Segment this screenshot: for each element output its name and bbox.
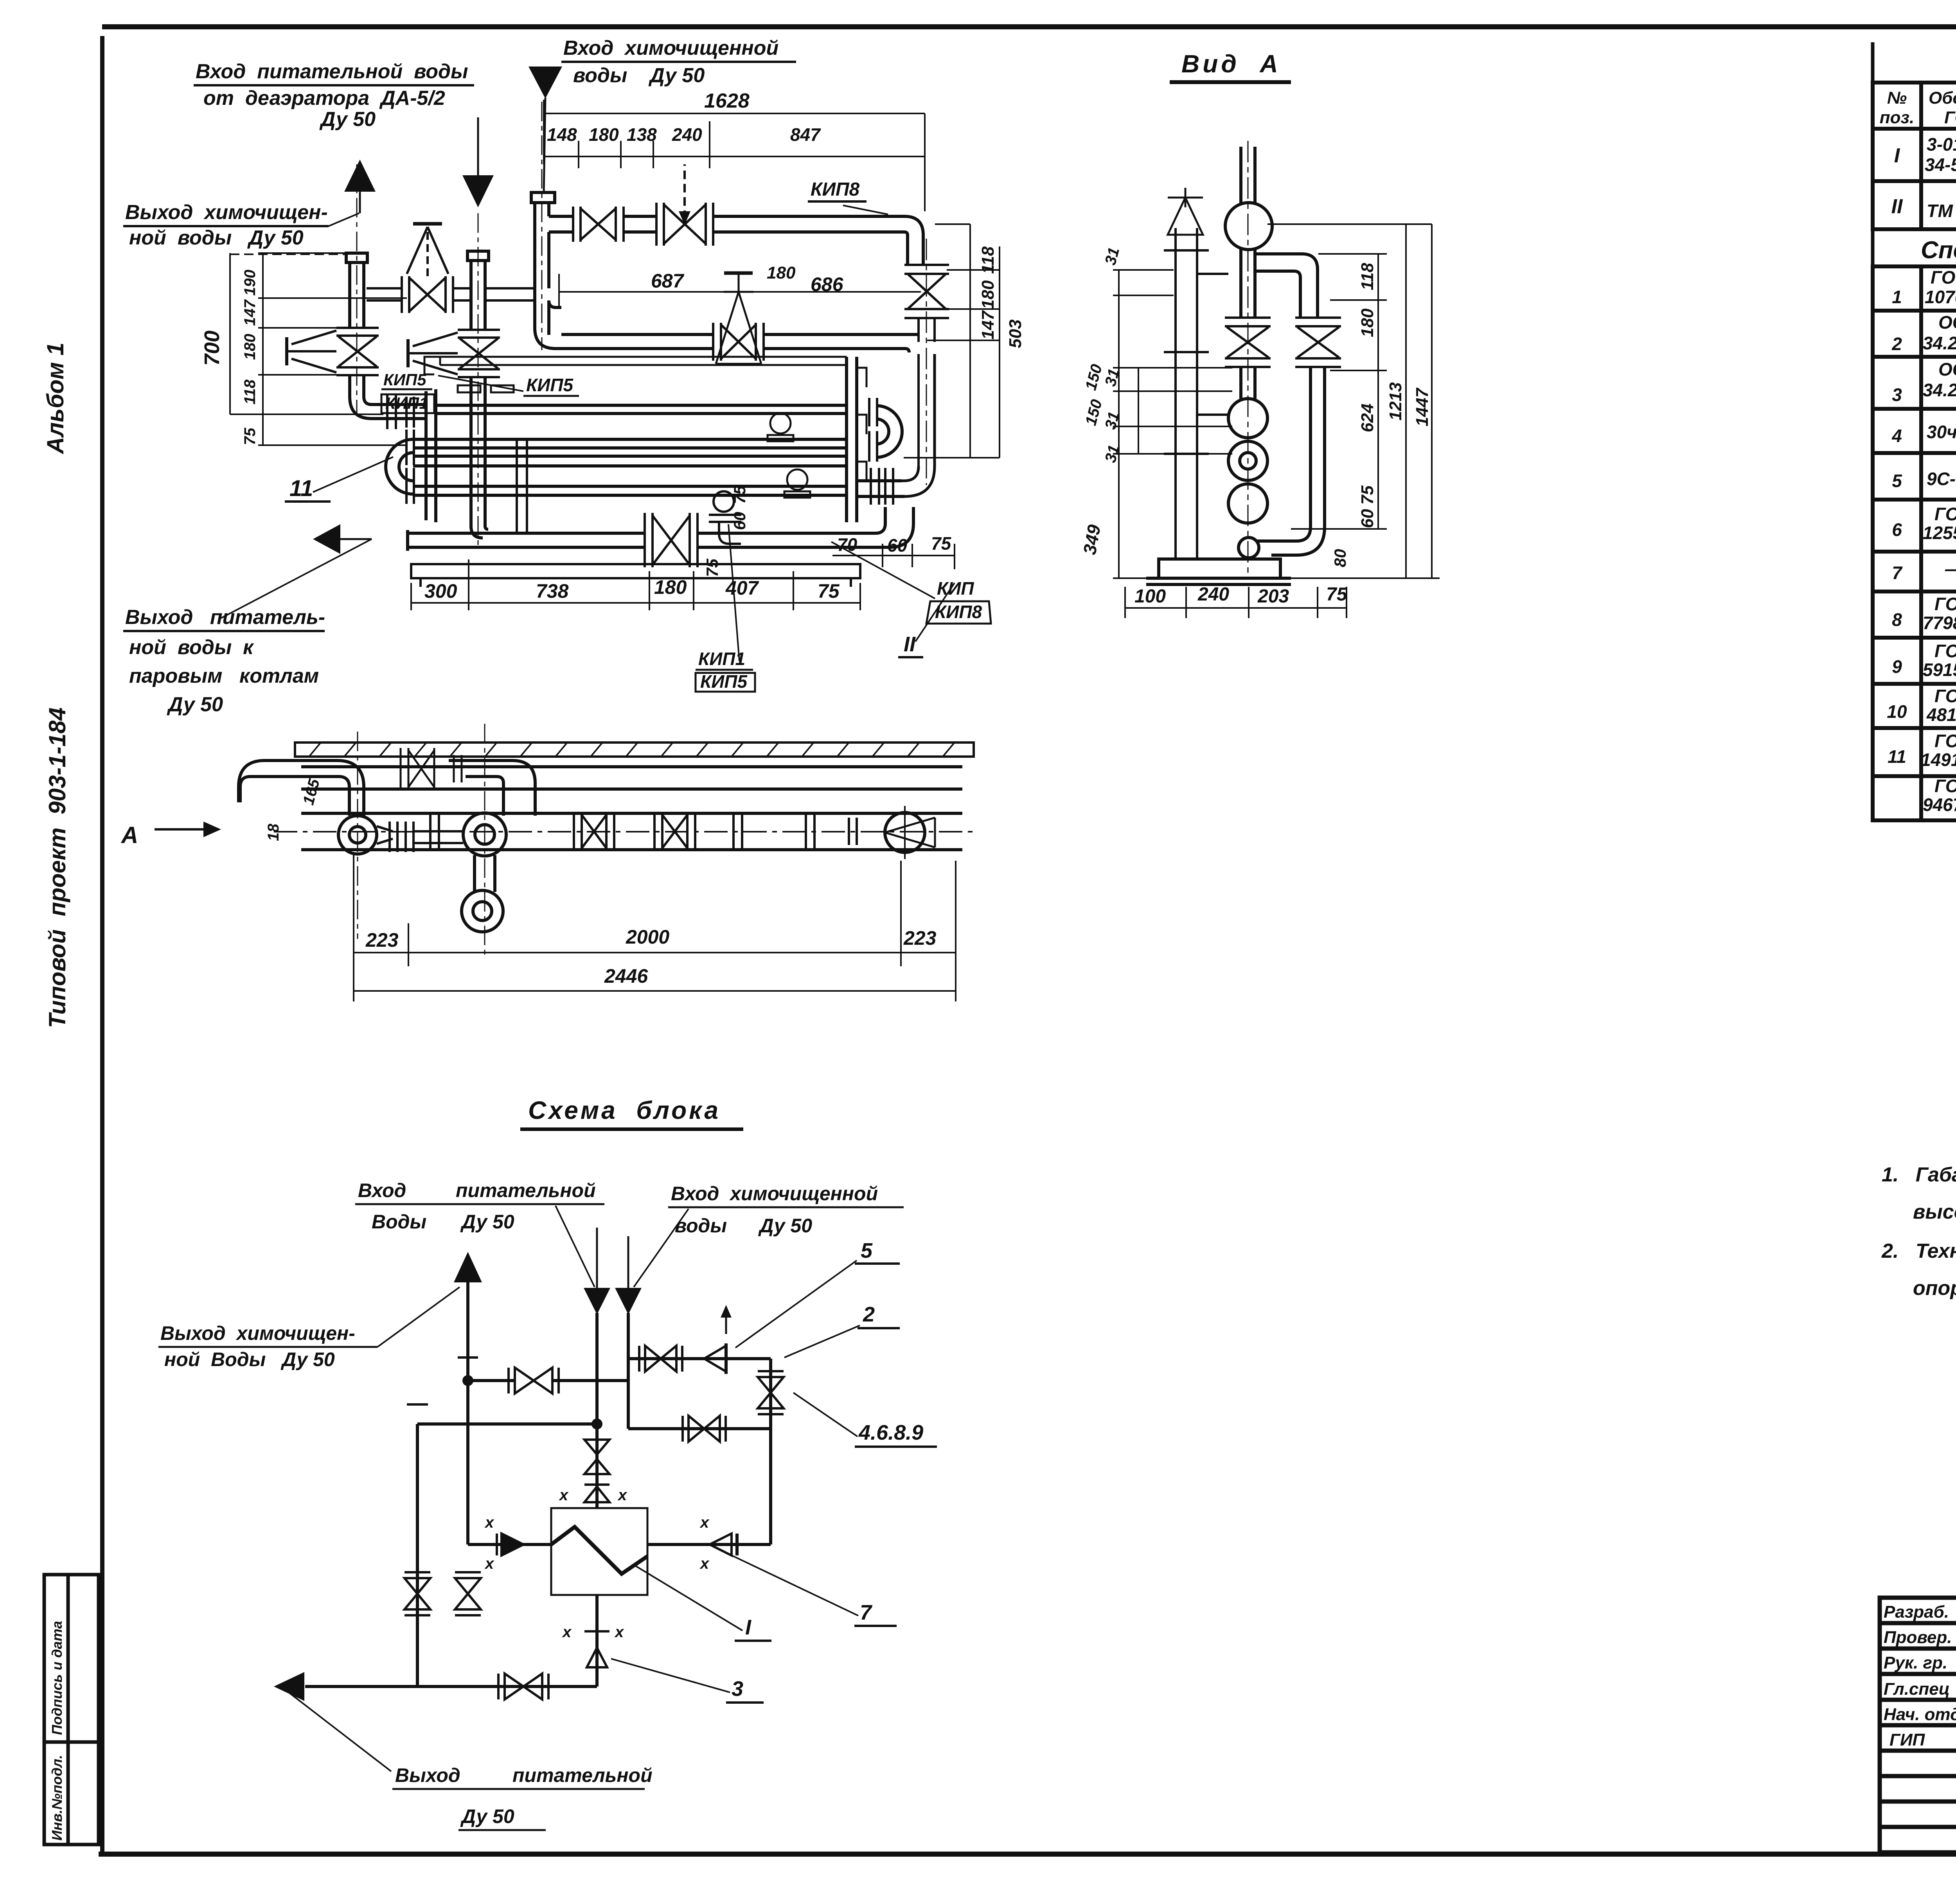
heat exchanger tube plates (424, 357, 867, 522)
svg-text:503: 503 (1006, 320, 1025, 348)
valves on H_d: gate + check (639, 1343, 726, 1374)
valve on right vertical (758, 1371, 784, 1414)
svg-text:высота - 1577 мм.: высота - 1577 мм. (1913, 1201, 1956, 1223)
label: feed outlet (286, 1690, 391, 1771)
pipe: lower horizontal run to right (561, 334, 919, 352)
stacked circles (1228, 399, 1267, 523)
small nozzles kip on tubes (458, 385, 810, 498)
svg-text:481-71: 481-71 (1926, 705, 1956, 725)
hx box (551, 1508, 647, 1595)
centerlines dash-dot verticals (357, 102, 542, 548)
centerlines vertical (358, 724, 485, 955)
svg-text:686: 686 (811, 273, 844, 295)
svg-text:7: 7 (1892, 563, 1903, 583)
bottom outlet pipe (408, 507, 913, 551)
left dim chain (1113, 270, 1232, 578)
valve on bottom pipe (645, 513, 698, 567)
svg-text:75: 75 (931, 533, 952, 554)
svg-text:1: 1 (1892, 287, 1902, 307)
svg-text:34-588-68: 34-588-68 (1925, 155, 1956, 175)
svg-text:1. Габариты блока: длин: 1. Габариты блока: длина - 2606, ширина … (1882, 1163, 1956, 1186)
main pipe lines (305, 1359, 771, 1686)
svg-text:КИП5: КИП5 (700, 671, 748, 692)
arrows down: feed and chem (584, 1288, 610, 1314)
svg-text:ной Воды Ду 50: ной Воды Ду 50 (164, 1348, 335, 1370)
svg-text:КИП8: КИП8 (935, 602, 982, 622)
table 1 row I (1894, 134, 1956, 177)
safety valve stack on feed line (584, 1440, 609, 1502)
svg-text:Ду 50: Ду 50 (167, 693, 223, 716)
svg-text:4.6.8.9: 4.6.8.9 (858, 1421, 923, 1444)
right dim chain (904, 224, 1000, 458)
bottom outlet (305, 1685, 597, 1688)
H_e return (628, 1427, 771, 1430)
valve 1 vertical (1225, 318, 1271, 367)
svg-text:180: 180 (654, 576, 687, 598)
svg-text:Выход питатель-: Выход питатель- (125, 606, 325, 629)
svg-text:x: x (699, 1555, 710, 1572)
svg-text:Выход химочищен-: Выход химочищен- (160, 1322, 355, 1344)
svg-text:ТМ —49: ТМ —49 (1927, 201, 1956, 221)
svg-text:100: 100 (1134, 586, 1166, 607)
svg-text:Альбом 1: Альбом 1 (42, 342, 68, 455)
svg-text:75: 75 (818, 580, 840, 602)
svg-text:4: 4 (1891, 426, 1902, 446)
svg-text:КИП5: КИП5 (526, 375, 573, 395)
svg-text:Выход: Выход (395, 1764, 460, 1786)
pipe V1 chem outlet vertical (346, 253, 426, 419)
svg-text:поз.: поз. (1880, 108, 1914, 127)
svg-text:180: 180 (1358, 308, 1377, 337)
svg-text:Вход питательной воды: Вход питательной воды (196, 60, 468, 83)
svg-text:18: 18 (265, 823, 282, 841)
svg-text:Вход химочищенной: Вход химочищенной (563, 37, 778, 59)
svg-text:опорную раму см. лист ТМ: опорную раму см. лист ТМ -49 (1913, 1277, 1956, 1300)
valve H_h (710, 1534, 737, 1555)
junction dots (462, 1375, 473, 1386)
left riser pipe with elbow (chem outlet seen from below) (239, 761, 535, 816)
exit arrow left (274, 1672, 304, 1701)
valve G3 on H2 with upper stem (402, 224, 453, 313)
svg-text:407: 407 (725, 577, 759, 599)
svg-text:Обознач.: Обознач. (1929, 88, 1956, 108)
svg-text:1447: 1447 (1413, 387, 1432, 426)
dim 1628 top (544, 100, 925, 211)
svg-text:А: А (120, 822, 138, 848)
svg-text:Вход химочищенной: Вход химочищенной (671, 1183, 878, 1205)
vertical centerline (1248, 141, 1249, 575)
left vertical 1 (416, 1424, 419, 1686)
below hx down to outlet (595, 1595, 599, 1686)
left U-bend kalach (386, 439, 413, 494)
svg-text:ГОСТ: ГОСТ (1934, 594, 1956, 614)
dims bottom row (411, 559, 860, 610)
svg-text:ГОСТ: ГОСТ (1931, 267, 1956, 288)
valve: right vertical gate (901, 239, 949, 496)
svg-text:180: 180 (978, 280, 998, 309)
svg-text:—"—: —"— (1945, 559, 1956, 579)
svg-text:x: x (562, 1624, 572, 1641)
svg-text:Ду 50: Ду 50 (319, 108, 376, 131)
svg-text:118: 118 (241, 379, 259, 405)
svg-text:118: 118 (978, 246, 998, 274)
dim row 148 180 138 240 847 (579, 121, 710, 168)
svg-text:КИП: КИП (937, 578, 974, 599)
svg-text:148: 148 (547, 124, 577, 145)
flange circle C1 (338, 816, 377, 854)
left stand column (1164, 228, 1228, 559)
svg-text:2: 2 (1891, 334, 1902, 354)
sheet frame left line (100, 36, 104, 1854)
H_b (417, 1422, 597, 1426)
svg-text:I: I (745, 1616, 751, 1639)
svg-text:I: I (1894, 144, 1900, 167)
svg-text:КИП8: КИП8 (811, 179, 860, 200)
flange ticks (430, 813, 857, 850)
svg-text:223: 223 (903, 927, 937, 949)
svg-text:60: 60 (887, 535, 908, 556)
svg-text:180: 180 (589, 124, 619, 145)
svg-text:180: 180 (241, 334, 259, 360)
svg-text:ГОСТ: ГОСТ (1934, 731, 1956, 751)
svg-text:КИП5: КИП5 (383, 370, 426, 389)
valve G2 on V2 (408, 330, 500, 377)
svg-text:5: 5 (861, 1239, 873, 1262)
svg-text:60: 60 (730, 512, 749, 530)
svg-text:624: 624 (1358, 404, 1377, 432)
hatched valve cluster on that pipe (401, 748, 462, 789)
H_g left to hx (468, 1543, 551, 1546)
spec table 2 grid (1873, 266, 1956, 820)
arrow down: feed inlet (477, 117, 479, 176)
top rail with hatch (295, 743, 974, 757)
svg-text:2000: 2000 (626, 926, 669, 948)
svg-text:847: 847 (790, 124, 821, 145)
svg-text:Разраб.: Разраб. (1884, 1602, 1949, 1622)
svg-text:1213: 1213 (1386, 382, 1405, 421)
svg-text:180: 180 (767, 263, 796, 282)
svg-text:118: 118 (1358, 262, 1377, 290)
svg-text:9С-3-3: 9С-3-3 (1927, 469, 1956, 489)
svg-text:5915-70*: 5915-70* (1923, 660, 1956, 680)
svg-text:воды Ду 50: воды Ду 50 (573, 64, 705, 87)
svg-text:147: 147 (241, 299, 259, 326)
svg-text:Инв.№подл.: Инв.№подл. (49, 1755, 65, 1841)
spec table title 2 (1873, 229, 1956, 266)
H_h right from hx (647, 1543, 771, 1546)
svg-text:питательной: питательной (456, 1179, 596, 1201)
svg-text:738: 738 (536, 580, 569, 602)
svg-text:1255-67*: 1255-67* (1923, 523, 1956, 543)
svg-text:ГОСТ: ГОСТ (1934, 686, 1956, 706)
svg-text:Схема блока: Схема блока (528, 1096, 721, 1124)
top pipe stub and circle (1225, 147, 1272, 318)
circle C2 with lower U-bend (462, 813, 506, 932)
svg-text:воды Ду 50: воды Ду 50 (675, 1215, 812, 1237)
dim 687 180 686 mid (559, 274, 921, 309)
bottom-left stamp boxes (44, 1575, 99, 1845)
valve on H_e (683, 1416, 726, 1442)
spec table 1 grid (1873, 83, 1956, 229)
svg-text:1628: 1628 (704, 90, 750, 112)
svg-text:9: 9 (1892, 656, 1902, 677)
svg-text:3: 3 (1892, 385, 1902, 405)
svg-text:11: 11 (1888, 746, 1906, 767)
svg-text:2: 2 (863, 1303, 875, 1326)
valves on left verticals (405, 1572, 481, 1615)
valve G1 on V1 (287, 328, 379, 375)
svg-text:x: x (559, 1487, 569, 1504)
svg-text:Нач. отд.: Нач. отд. (1884, 1705, 1956, 1724)
title block small texts (1884, 1602, 1956, 1749)
svg-text:Подпись и дата: Подпись и дата (49, 1621, 65, 1735)
svg-text:11: 11 (289, 476, 313, 501)
svg-text:80: 80 (1331, 549, 1349, 567)
section 3 pipe right (857, 481, 904, 496)
right dim chains (1267, 224, 1440, 578)
bottom dims (1125, 587, 1347, 618)
base (1146, 559, 1291, 584)
svg-text:x: x (484, 1555, 494, 1572)
svg-text:5: 5 (1892, 471, 1902, 491)
valve on lower horizontal run (713, 323, 764, 361)
svg-text:питательной: питательной (512, 1764, 653, 1786)
svg-text:6: 6 (1892, 520, 1902, 540)
svg-text:Типовой проект 903-1-184: Типовой проект 903-1-184 (44, 707, 70, 1028)
svg-text:75: 75 (730, 485, 749, 504)
svg-text:7: 7 (860, 1601, 873, 1624)
svg-text:II: II (904, 633, 916, 656)
valves on body (574, 813, 695, 850)
flange tick top-left vertical (407, 1403, 428, 1406)
table 1 header text (1880, 85, 1956, 128)
valve on H_a (509, 1368, 559, 1393)
svg-text:14911-69*: 14911-69* (1921, 750, 1956, 770)
svg-text:300: 300 (424, 580, 457, 602)
pipes below valves (1239, 367, 1325, 558)
pipe V2 feed vertical (467, 251, 489, 538)
valve: top small gate (573, 207, 624, 242)
svg-text:Провер.: Провер. (1884, 1628, 1952, 1647)
svg-text:Гл.спец: Гл.спец (1884, 1679, 1950, 1699)
svg-text:138: 138 (627, 124, 657, 145)
sheet frame bottom line (99, 1852, 1956, 1857)
bottom dims (354, 853, 956, 1001)
svg-text:Воды: Воды (372, 1211, 426, 1233)
svg-text:30ч6бр.: 30ч6бр. (1927, 422, 1956, 442)
svg-text:240: 240 (672, 124, 702, 145)
svg-text:240: 240 (1197, 584, 1229, 605)
svg-text:Ду 50: Ду 50 (460, 1211, 514, 1233)
pipe: top horizontal run (549, 216, 923, 266)
svg-text:Спецификация: Спецификация (1921, 237, 1956, 264)
svg-text:Ду 50: Ду 50 (460, 1805, 514, 1827)
valve 2 vertical (1295, 318, 1341, 367)
svg-text:ОСТ: ОСТ (1938, 359, 1956, 379)
svg-text:ГОСТ: ГОСТ (1934, 641, 1956, 661)
right U-bend (876, 406, 902, 457)
arrow left: feed outlet (313, 524, 340, 554)
svg-text:Выход химочищен-: Выход химочищен- (125, 201, 328, 224)
svg-text:60: 60 (1358, 509, 1377, 528)
svg-text:Вид А: Вид А (1181, 50, 1281, 78)
top right branch pipe (1255, 254, 1318, 318)
svg-text:x: x (699, 1514, 710, 1531)
small vertical drop pipe (517, 439, 527, 533)
pipe: chem inlet vertical (531, 192, 561, 349)
svg-text:x: x (617, 1487, 627, 1504)
sheet frame top bar (102, 24, 1956, 29)
svg-text:687: 687 (651, 270, 685, 292)
svg-text:ной воды Ду 50: ной воды Ду 50 (129, 227, 304, 249)
svg-text:34.209-73: 34.209-73 (1923, 380, 1956, 400)
arrow small up near check (725, 1307, 727, 1334)
svg-text:75: 75 (1326, 584, 1348, 605)
bypass H_a with gap valve (468, 1379, 515, 1382)
svg-text:8: 8 (1892, 609, 1902, 630)
svg-text:75: 75 (241, 428, 259, 445)
leader lines from labels to arrows (556, 1206, 595, 1287)
svg-text:№: № (1887, 88, 1907, 108)
svg-text:34.204-73: 34.204-73 (1923, 333, 1956, 353)
arrow down: chem inlet (529, 67, 562, 99)
svg-text:70: 70 (837, 534, 858, 555)
svg-text:ГИП: ГИП (1889, 1730, 1925, 1749)
left tube flanges (387, 395, 414, 504)
svg-text:2446: 2446 (604, 965, 648, 987)
svg-text:от деаэратора ДА-5/2: от деаэратора ДА-5/2 (203, 87, 445, 110)
table 2 rows text (1887, 267, 1956, 815)
svg-text:ГОСТ: ГОСТ (1944, 108, 1956, 127)
svg-text:75: 75 (703, 559, 721, 577)
svg-text:Вход: Вход (358, 1179, 406, 1201)
svg-text:223: 223 (365, 929, 399, 951)
elbow kip1 lower right (709, 491, 741, 544)
svg-text:ГОСТ: ГОСТ (1934, 776, 1956, 796)
svg-text:Рук. гр.: Рук. гр. (1884, 1653, 1947, 1672)
svg-text:700: 700 (200, 331, 224, 366)
svg-text:75: 75 (1358, 485, 1377, 505)
svg-text:203: 203 (1257, 586, 1289, 607)
svg-text:2. Технические требования: 2. Технические требования на изготовлени… (1881, 1240, 1956, 1262)
svg-text:147: 147 (978, 310, 998, 340)
svg-text:паровым котлам: паровым котлам (129, 665, 319, 687)
left rows (1880, 1621, 1956, 1625)
svg-text:ной воды к: ной воды к (129, 636, 254, 659)
arrow up: chem outlet (344, 160, 376, 192)
left dim chain (230, 253, 407, 445)
svg-text:9467-75: 9467-75 (1923, 795, 1956, 815)
support frame (411, 564, 860, 587)
svg-text:ОСТ: ОСТ (1938, 312, 1956, 333)
right tube flanges (869, 398, 893, 505)
svg-text:10: 10 (1887, 701, 1907, 722)
valve on bottom outlet (498, 1674, 548, 1699)
pipe: mid horizontal (H2) (367, 288, 535, 300)
heat exchanger tubes (413, 405, 847, 495)
svg-text:II: II (1891, 195, 1903, 218)
svg-text:x: x (614, 1624, 624, 1641)
H_d top right branch (628, 1357, 771, 1360)
valve: top big gate with dashed stem (656, 164, 713, 246)
svg-text:3: 3 (732, 1677, 743, 1701)
body tube (274, 767, 978, 850)
reducer cone and flanges right of C1 (377, 822, 463, 852)
left vertical 2 continues down (466, 1381, 469, 1544)
valve: mid vertical valve with T-handle (716, 273, 761, 364)
arrow up chem out (454, 1252, 482, 1282)
svg-text:ГОСТ: ГОСТ (1934, 504, 1956, 524)
svg-text:190: 190 (241, 270, 259, 296)
svg-text:3-01 ОСТ: 3-01 ОСТ (1927, 134, 1956, 155)
right end circle (885, 806, 935, 859)
handwheel triangle top-left (1168, 188, 1203, 235)
check valve H_g (497, 1534, 523, 1555)
svg-text:10704-76: 10704-76 (1925, 287, 1956, 307)
drain valve below hx (584, 1631, 609, 1667)
svg-text:x: x (484, 1514, 494, 1531)
svg-text:7798-70*: 7798-70* (1923, 613, 1956, 633)
table 1 row II (1891, 184, 1956, 221)
